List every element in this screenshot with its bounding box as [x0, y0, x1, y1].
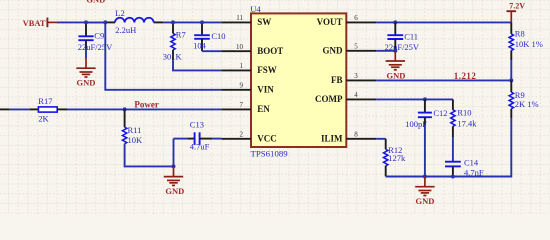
svg-text:9: 9	[240, 82, 244, 90]
svg-text:C9: C9	[94, 30, 104, 40]
svg-text:R11: R11	[128, 125, 142, 135]
wire C12 to rail	[424, 125, 426, 177]
op-amp-style IC U4 TPS61089 body	[251, 13, 346, 147]
ground under C13	[173, 166, 175, 176]
svg-text:301K: 301K	[163, 51, 183, 61]
capacitor C12	[423, 97, 427, 101]
svg-text:C12: C12	[433, 108, 447, 118]
svg-text:VIN: VIN	[257, 85, 274, 95]
svg-text:4.7uF: 4.7uF	[190, 142, 210, 152]
junction dots top rail	[84, 20, 88, 24]
svg-text:C10: C10	[211, 31, 225, 41]
svg-text:7: 7	[240, 101, 244, 109]
wire ILIM to R12	[376, 138, 386, 140]
svg-text:GND: GND	[86, 0, 105, 4]
svg-text:100pF: 100pF	[405, 119, 427, 129]
wire R10 to C14	[452, 137, 454, 162]
node Power junction	[123, 107, 127, 111]
wire VBAT to L2	[58, 21, 106, 23]
svg-text:R7: R7	[176, 30, 186, 40]
wire COMP	[376, 98, 453, 100]
resistor R17	[29, 108, 38, 110]
resistor R11	[124, 109, 126, 127]
svg-text:2K: 2K	[38, 114, 49, 124]
wire L2 to SW	[163, 21, 221, 23]
resistor R12	[384, 149, 388, 166]
svg-text:FSW: FSW	[257, 65, 277, 75]
resistor R8	[510, 22, 512, 34]
svg-text:BOOT: BOOT	[257, 46, 283, 56]
svg-text:SW: SW	[257, 17, 271, 27]
svg-text:10K: 10K	[128, 135, 144, 145]
svg-text:U4: U4	[250, 4, 261, 14]
svg-text:5: 5	[354, 43, 358, 51]
pin 9 VIN	[221, 89, 251, 91]
pin 2 VCC	[221, 138, 251, 140]
wire R9 to bottom rail	[453, 118, 511, 176]
svg-text:2: 2	[240, 131, 244, 139]
pin 8 ILIM	[346, 138, 376, 140]
svg-text:COMP: COMP	[315, 94, 343, 104]
pin 3 FB	[346, 79, 376, 81]
svg-text:11: 11	[236, 14, 243, 22]
wire C10 to BOOT	[202, 50, 221, 52]
svg-text:127k: 127k	[388, 153, 406, 163]
pin 1 FSW	[221, 69, 251, 71]
svg-text:C14: C14	[464, 157, 479, 167]
svg-text:FB: FB	[331, 75, 343, 85]
svg-text:4: 4	[354, 91, 358, 99]
capacitor C10	[201, 22, 203, 34]
resistor R10	[452, 99, 454, 109]
svg-text:TPS61089: TPS61089	[251, 149, 289, 159]
svg-text:C13: C13	[190, 120, 204, 130]
svg-text:2K 1%: 2K 1%	[515, 99, 539, 109]
svg-text:10: 10	[236, 43, 244, 51]
pin 5 GND	[346, 50, 376, 52]
wire VOUT to 7.2V	[376, 21, 511, 23]
svg-text:3: 3	[354, 72, 358, 80]
svg-text:2.2uH: 2.2uH	[115, 25, 136, 35]
inductor L2	[105, 21, 115, 23]
svg-text:C11: C11	[404, 32, 418, 42]
svg-text:R17: R17	[38, 96, 52, 106]
wire VBAT rail down to VIN	[105, 22, 221, 89]
svg-text:GND: GND	[323, 46, 344, 56]
wire GND pin to C11	[376, 50, 395, 52]
wire C13 to VCC	[212, 138, 221, 140]
wire stub at left edge	[0, 108, 10, 110]
pin 10 BOOT	[221, 50, 251, 52]
resistor R9	[510, 80, 512, 92]
wire C13 left to gnd	[173, 139, 175, 167]
ground under C12	[424, 177, 426, 187]
svg-text:L2: L2	[115, 8, 124, 18]
pin 4 COMP	[346, 98, 376, 100]
wire C9 to ground	[85, 49, 87, 59]
svg-text:GND: GND	[165, 186, 184, 196]
svg-text:7.2V: 7.2V	[509, 2, 525, 11]
wire R7 to FSW	[173, 60, 221, 70]
pin 7 EN	[221, 108, 251, 110]
ground under C9	[85, 58, 87, 68]
bottom ground rail	[386, 176, 512, 178]
wire R17 to EN	[67, 108, 221, 110]
svg-text:104: 104	[193, 41, 207, 51]
svg-text:R8: R8	[515, 29, 525, 39]
resistor R7	[172, 22, 174, 33]
svg-text:GND: GND	[77, 77, 96, 87]
svg-text:ILIM: ILIM	[321, 134, 343, 144]
svg-text:8: 8	[354, 131, 358, 139]
capacitor C14	[445, 161, 461, 163]
svg-text:R10: R10	[457, 107, 471, 117]
svg-text:10K 1%: 10K 1%	[515, 39, 543, 49]
ground under C11	[394, 51, 396, 61]
capacitor C13	[174, 138, 189, 140]
svg-text:VOUT: VOUT	[317, 17, 343, 27]
svg-text:EN: EN	[257, 104, 270, 114]
svg-text:VBAT: VBAT	[23, 18, 46, 28]
capacitor C9	[85, 22, 87, 36]
svg-text:1: 1	[240, 62, 244, 70]
svg-text:6: 6	[354, 14, 358, 22]
svg-text:22uF/25V: 22uF/25V	[78, 42, 113, 52]
wire FB	[376, 79, 511, 81]
svg-text:GND: GND	[416, 196, 435, 206]
capacitor C11	[393, 20, 397, 24]
svg-text:17.4k: 17.4k	[457, 118, 477, 128]
wire R11 to gnd node	[125, 144, 174, 167]
pin 11 SW	[221, 21, 251, 23]
svg-text:Power: Power	[134, 100, 159, 110]
svg-text:GND: GND	[386, 70, 405, 80]
pin 6 VOUT	[346, 21, 376, 23]
wire R8 to FB node	[510, 60, 512, 80]
svg-text:VCC: VCC	[257, 134, 277, 144]
svg-text:1.212: 1.212	[454, 71, 477, 81]
